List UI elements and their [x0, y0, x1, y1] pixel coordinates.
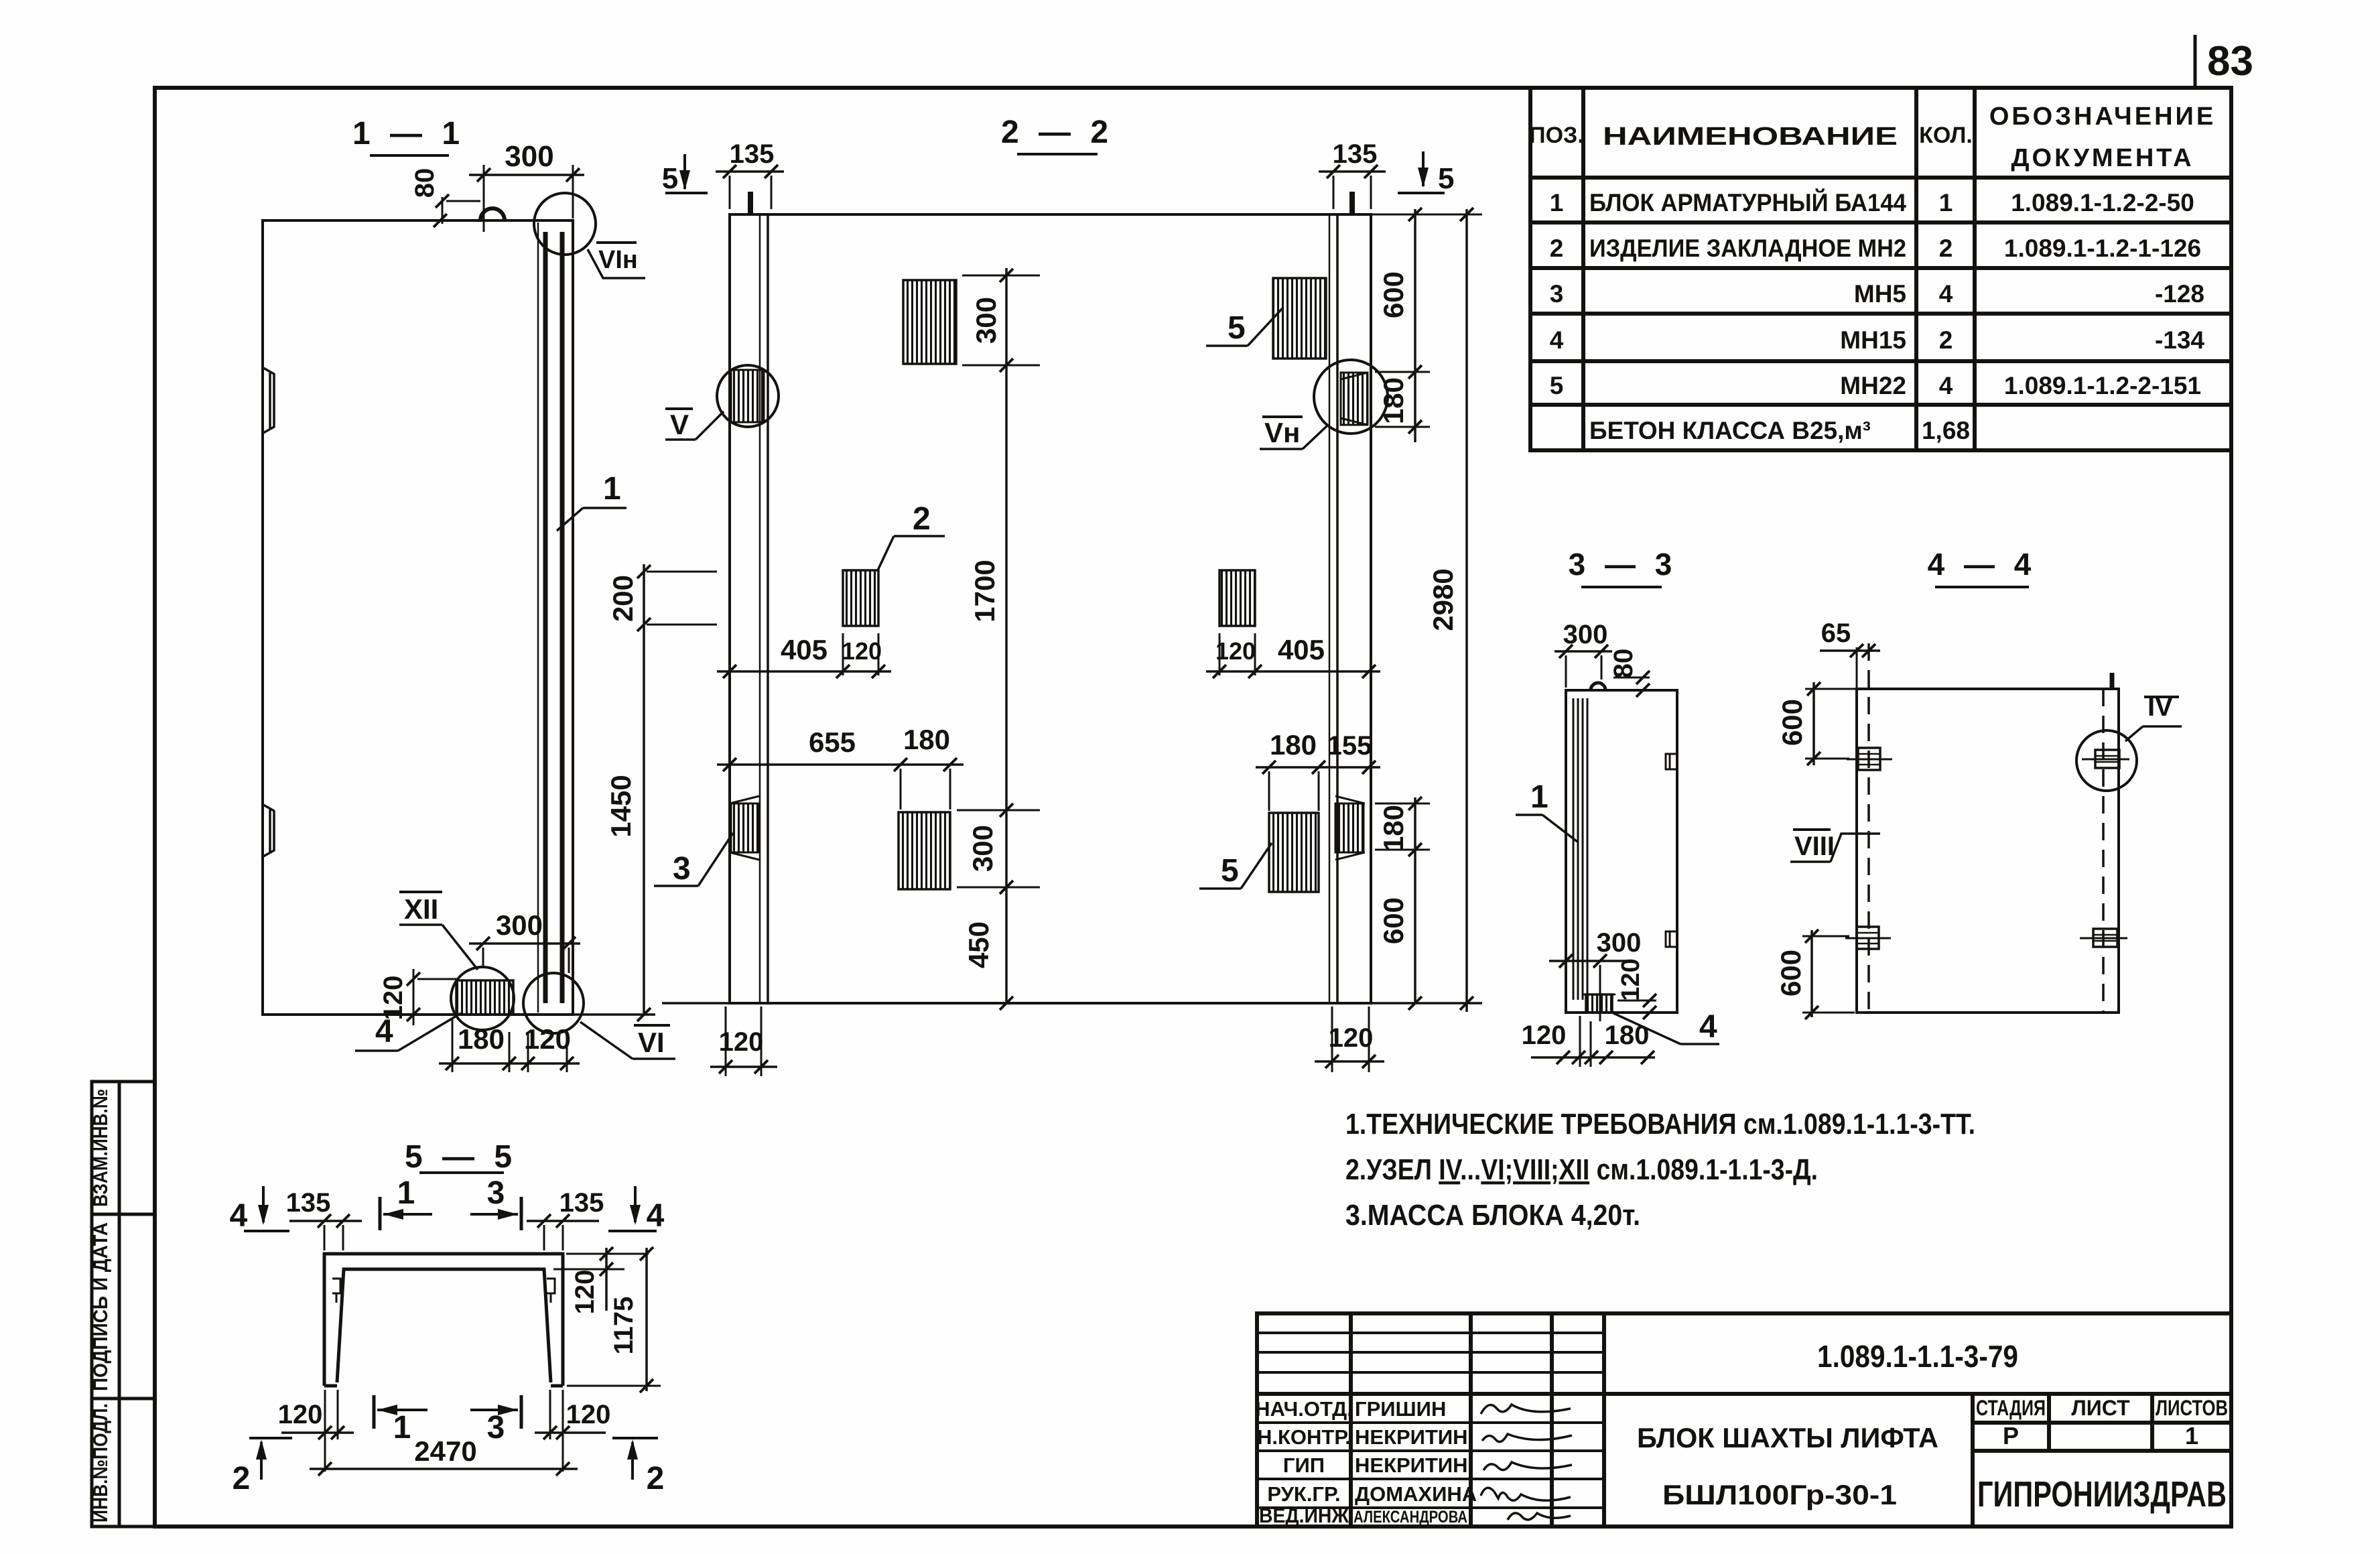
svg-text:120: 120: [842, 637, 882, 665]
svg-text:5: 5: [1550, 372, 1564, 399]
panel outline 1-1: [263, 220, 573, 1015]
svg-text:1: 1: [1530, 779, 1548, 815]
wall anchor item3 left: [731, 803, 759, 852]
label V: [665, 407, 693, 410]
svg-text:4: 4: [230, 1198, 248, 1234]
svg-text:1.089.1-1.2-2-151: 1.089.1-1.2-2-151: [2004, 372, 2201, 399]
svg-text:ЛИСТОВ: ЛИСТОВ: [2156, 1396, 2228, 1420]
svg-text:155: 155: [1327, 731, 1372, 761]
rail groove thin line: [537, 222, 539, 1013]
svg-text:4: 4: [647, 1198, 665, 1234]
embed plate MH22 bottom-right: [1269, 813, 1319, 892]
section arrow 1 bottom: [373, 1395, 376, 1429]
svg-text:600: 600: [1775, 950, 1806, 996]
svg-text:2: 2: [1939, 326, 1953, 354]
svg-text:120: 120: [1522, 1021, 1567, 1050]
svg-text:135: 135: [559, 1188, 604, 1218]
dashed rail line left: [1867, 643, 1870, 1013]
svg-text:200: 200: [607, 575, 639, 622]
svg-text:4 — 4: 4 — 4: [1928, 547, 2037, 582]
svg-text:ИНВ.№ПОДЛ.: ИНВ.№ПОДЛ.: [90, 1403, 112, 1523]
svg-text:5 — 5: 5 — 5: [405, 1139, 517, 1175]
svg-text:2: 2: [913, 501, 931, 537]
svg-text:НЕКРИТИН: НЕКРИТИН: [1355, 1425, 1468, 1449]
detail circle V: [731, 370, 764, 422]
svg-text:2.УЗЕЛ IV...VI;VIII;XII см.1.0: 2.УЗЕЛ IV...VI;VIII;XII см.1.089.1-1.1-3…: [1345, 1153, 1818, 1186]
svg-text:РУК.ГР.: РУК.ГР.: [1267, 1482, 1340, 1506]
svg-text:4: 4: [375, 1014, 393, 1049]
table rows: [1550, 188, 2205, 444]
anchor block item4 (3-3): [1586, 994, 1612, 1013]
svg-text:135: 135: [730, 139, 775, 169]
svg-text:ДОМАХИНА: ДОМАХИНА: [1355, 1482, 1477, 1506]
svg-text:300: 300: [1563, 620, 1608, 649]
dim 1175 right: [645, 1248, 648, 1391]
svg-text:2: 2: [233, 1461, 251, 1496]
cut stub top right: [2110, 673, 2115, 689]
svg-text:300: 300: [970, 297, 1002, 344]
wall anchor item5 right: [1335, 803, 1364, 852]
svg-text:1175: 1175: [609, 1297, 639, 1355]
svg-text:300: 300: [505, 140, 553, 173]
svg-text:2470: 2470: [414, 1435, 476, 1467]
lifting loop 3-3: [1591, 683, 1605, 690]
svg-text:ВЗАМ.ИНВ.№: ВЗАМ.ИНВ.№: [90, 1089, 112, 1207]
svg-text:3: 3: [1550, 280, 1564, 308]
label Vн: [1262, 415, 1303, 418]
svg-text:1.ТЕХНИЧЕСКИЕ ТРЕБОВАНИЯ см.: 1.ТЕХНИЧЕСКИЕ ТРЕБОВАНИЯ см.1.089.1-1.1-…: [1345, 1108, 1975, 1141]
detail circle VI: [523, 973, 584, 1033]
svg-text:VI: VI: [638, 1027, 665, 1058]
svg-text:135: 135: [286, 1188, 331, 1218]
svg-text:300: 300: [496, 909, 543, 941]
svg-text:4: 4: [1699, 1009, 1717, 1045]
svg-text:120: 120: [524, 1023, 571, 1055]
svg-text:4: 4: [1939, 372, 1953, 399]
lifting loop: [480, 208, 505, 220]
svg-text:4: 4: [1550, 326, 1564, 354]
svg-text:НАЧ.ОТД.: НАЧ.ОТД.: [1255, 1397, 1353, 1421]
svg-text:2: 2: [1550, 235, 1564, 262]
svg-text:65: 65: [1821, 619, 1851, 648]
svg-text:1,68: 1,68: [1922, 417, 1970, 444]
svg-text:300: 300: [967, 825, 998, 872]
dim 120 flange right: [566, 1253, 649, 1255]
svg-text:5: 5: [1228, 310, 1246, 346]
svg-text:БШЛ100Гр-30-1: БШЛ100Гр-30-1: [1662, 1479, 1897, 1510]
svg-text:КОЛ.: КОЛ.: [1919, 123, 1973, 148]
panel outline 4-4: [1857, 689, 2119, 1013]
svg-text:ГРИШИН: ГРИШИН: [1355, 1397, 1446, 1421]
svg-text:180: 180: [903, 724, 950, 755]
svg-text:БЕТОН КЛАССА В25,м³: БЕТОН КЛАССА В25,м³: [1589, 417, 1871, 444]
svg-text:120: 120: [1617, 958, 1645, 1000]
dashed rail line right: [2102, 689, 2105, 1013]
svg-text:2: 2: [647, 1461, 665, 1496]
rail bars: [543, 232, 548, 1003]
svg-text:180: 180: [458, 1023, 505, 1055]
rails 3-3: [1573, 698, 1575, 1000]
svg-text:600: 600: [1378, 271, 1409, 318]
panel outline 2-2: [730, 214, 1371, 1003]
embed plate MH22 top-centre: [903, 280, 956, 364]
svg-text:ГИП: ГИП: [1283, 1453, 1325, 1477]
svg-text:НАИМЕНОВАНИЕ: НАИМЕНОВАНИЕ: [1603, 123, 1898, 151]
hatched insert MH15: [456, 980, 513, 1015]
detail circle Vн: [1341, 373, 1368, 425]
svg-text:1.089.1-1.1-3-79: 1.089.1-1.1-3-79: [1817, 1339, 2018, 1374]
svg-text:5: 5: [662, 162, 678, 195]
svg-text:120: 120: [1215, 637, 1256, 665]
right wall inner lines: [1329, 214, 1331, 1003]
svg-text:НЕКРИТИН: НЕКРИТИН: [1355, 1453, 1468, 1477]
staff labels: [1255, 1397, 1477, 1527]
svg-text:БЛОК АРМАТУРНЫЙ БА144: БЛОК АРМАТУРНЫЙ БА144: [1589, 188, 1906, 216]
svg-text:1: 1: [397, 1175, 415, 1211]
svg-text:180: 180: [1378, 377, 1409, 424]
svg-text:ДОКУМЕНТА: ДОКУМЕНТА: [2011, 144, 2194, 172]
svg-text:1.089.1-1.2-1-126: 1.089.1-1.2-1-126: [2004, 235, 2201, 262]
svg-text:ЛИСТ: ЛИСТ: [2071, 1396, 2130, 1420]
embed plate MH22 bottom-centre: [899, 812, 950, 889]
svg-text:180: 180: [1605, 1021, 1650, 1050]
fitting left lower 4-4: [1857, 927, 1879, 949]
table header: [1529, 103, 2216, 172]
right notch upper 3-3: [1666, 754, 1677, 769]
left notch lower: [263, 805, 274, 856]
svg-text:3: 3: [487, 1410, 505, 1445]
svg-text:405: 405: [1278, 634, 1325, 665]
left notch upper: [263, 368, 274, 433]
svg-text:1: 1: [1939, 189, 1953, 216]
svg-text:АЛЕКСАНДРОВА: АЛЕКСАНДРОВА: [1353, 1508, 1467, 1527]
svg-text:600: 600: [1776, 699, 1808, 746]
svg-text:ОБОЗНАЧЕНИЕ: ОБОЗНАЧЕНИЕ: [1989, 103, 2216, 131]
svg-text:1.089.1-1.2-2-50: 1.089.1-1.2-2-50: [2011, 189, 2194, 216]
svg-text:3.МАССА БЛОКА 4,20т.: 3.МАССА БЛОКА 4,20т.: [1345, 1199, 1640, 1232]
svg-text:ГИПРОНИИЗДРАВ: ГИПРОНИИЗДРАВ: [1977, 1474, 2227, 1514]
svg-text:МН22: МН22: [1840, 372, 1906, 399]
left wall inner lines: [759, 214, 761, 1003]
svg-text:-128: -128: [2155, 280, 2204, 308]
svg-text:ИЗДЕЛИЕ ЗАКЛАДНОЕ МН2: ИЗДЕЛИЕ ЗАКЛАДНОЕ МН2: [1589, 235, 1906, 262]
svg-text:5: 5: [1221, 853, 1239, 889]
svg-text:1: 1: [2185, 1422, 2198, 1449]
svg-text:80: 80: [410, 168, 440, 198]
svg-text:405: 405: [781, 634, 828, 665]
cut plane stub left: [748, 192, 753, 214]
svg-text:83: 83: [2207, 38, 2253, 84]
label XII: [399, 891, 442, 893]
label VI: [634, 1024, 670, 1027]
svg-text:1 — 1: 1 — 1: [352, 116, 465, 151]
svg-text:БЛОК ШАХТЫ ЛИФТА: БЛОК ШАХТЫ ЛИФТА: [1637, 1422, 1938, 1453]
label VIII: [1793, 828, 1831, 831]
fitting right lower 4-4: [2093, 929, 2117, 947]
label VIн: [596, 241, 637, 244]
svg-text:180: 180: [1378, 805, 1409, 852]
embed plate MH2 left: [843, 570, 878, 626]
svg-text:XII: XII: [404, 893, 438, 925]
full height dim 2980: [1465, 209, 1468, 1012]
svg-text:300: 300: [1597, 928, 1642, 958]
svg-text:3: 3: [487, 1175, 505, 1211]
signatures: [1481, 1405, 1572, 1520]
stage cells: [1976, 1396, 2228, 1449]
svg-text:180: 180: [1270, 729, 1317, 761]
svg-text:1: 1: [393, 1410, 411, 1445]
right lower dim line 180/600: [1414, 797, 1416, 1003]
svg-text:600: 600: [1378, 897, 1409, 944]
svg-text:450: 450: [963, 921, 994, 968]
svg-text:Н.КОНТР.: Н.КОНТР.: [1257, 1425, 1351, 1449]
svg-text:Vн: Vн: [1264, 417, 1300, 448]
svg-text:Р: Р: [2003, 1422, 2019, 1449]
svg-text:655: 655: [809, 726, 856, 758]
svg-text:ПОЗ.: ПОЗ.: [1529, 123, 1584, 148]
dim 300 at top plate: [962, 275, 1040, 277]
right notch lower 3-3: [1666, 931, 1677, 947]
rail mark right leg: [547, 1279, 555, 1303]
centre dim line: [1005, 268, 1008, 1003]
left sidebar stamp column: [92, 1082, 155, 1527]
svg-text:СТАДИЯ: СТАДИЯ: [1976, 1396, 2046, 1420]
svg-text:V: V: [670, 409, 689, 440]
svg-text:1: 1: [1550, 189, 1564, 216]
svg-text:120: 120: [570, 1270, 600, 1315]
left dim 600 lower 4-4: [1810, 930, 1813, 1017]
svg-text:МН5: МН5: [1854, 280, 1906, 308]
fitting left upper 4-4: [1858, 748, 1880, 770]
svg-text:МН15: МН15: [1840, 326, 1906, 354]
svg-text:ПОДПИСЬ И ДАТА: ПОДПИСЬ И ДАТА: [90, 1222, 112, 1391]
detail circle XII: [451, 967, 514, 1030]
right upper dim line 600/180: [1371, 214, 1482, 216]
svg-text:5: 5: [1438, 162, 1454, 195]
embed plate MH2 right: [1219, 570, 1255, 626]
svg-text:2 — 2: 2 — 2: [1001, 115, 1114, 150]
fitting right upper 4-4: [2095, 750, 2119, 768]
svg-text:1700: 1700: [969, 560, 1000, 622]
svg-text:2: 2: [1939, 235, 1953, 262]
svg-text:1450: 1450: [605, 775, 637, 837]
page number 83: [2194, 35, 2197, 88]
svg-text:120: 120: [566, 1400, 611, 1429]
svg-text:3 — 3: 3 — 3: [1569, 547, 1678, 582]
left dim 600 upper 4-4: [1812, 682, 1815, 765]
right dim column 200 / 1450: [643, 564, 645, 1015]
svg-text:IV: IV: [2147, 692, 2173, 722]
dim 300 top: [469, 174, 584, 176]
detail circle VIн: [534, 193, 596, 255]
bottom edge extension: [573, 1013, 655, 1016]
svg-text:VIII: VIII: [1794, 832, 1835, 861]
label IV: [2144, 696, 2179, 698]
svg-text:3: 3: [673, 851, 691, 887]
svg-text:1: 1: [603, 471, 621, 507]
svg-text:4: 4: [1939, 280, 1953, 308]
embed plate MH22 top-right: [1273, 278, 1326, 359]
svg-text:80: 80: [1609, 649, 1638, 679]
rail mark left leg: [332, 1279, 340, 1303]
cut plane stub right: [1349, 192, 1355, 214]
detail circle IV: [2076, 730, 2137, 791]
SPEC TABLE top right: [1530, 88, 2231, 450]
panel outline 3-3: [1566, 690, 1677, 1013]
svg-text:2980: 2980: [1427, 568, 1459, 631]
svg-text:ВЕД.ИНЖ: ВЕД.ИНЖ: [1259, 1504, 1349, 1527]
svg-text:120: 120: [278, 1400, 323, 1429]
svg-text:-134: -134: [2155, 326, 2204, 354]
section arrow 3 bottom: [520, 1395, 523, 1429]
svg-text:120: 120: [1329, 1023, 1374, 1053]
channel section outline: [324, 1254, 563, 1386]
svg-text:VIн: VIн: [598, 246, 638, 274]
section mark 5 top-right: [1422, 151, 1425, 186]
